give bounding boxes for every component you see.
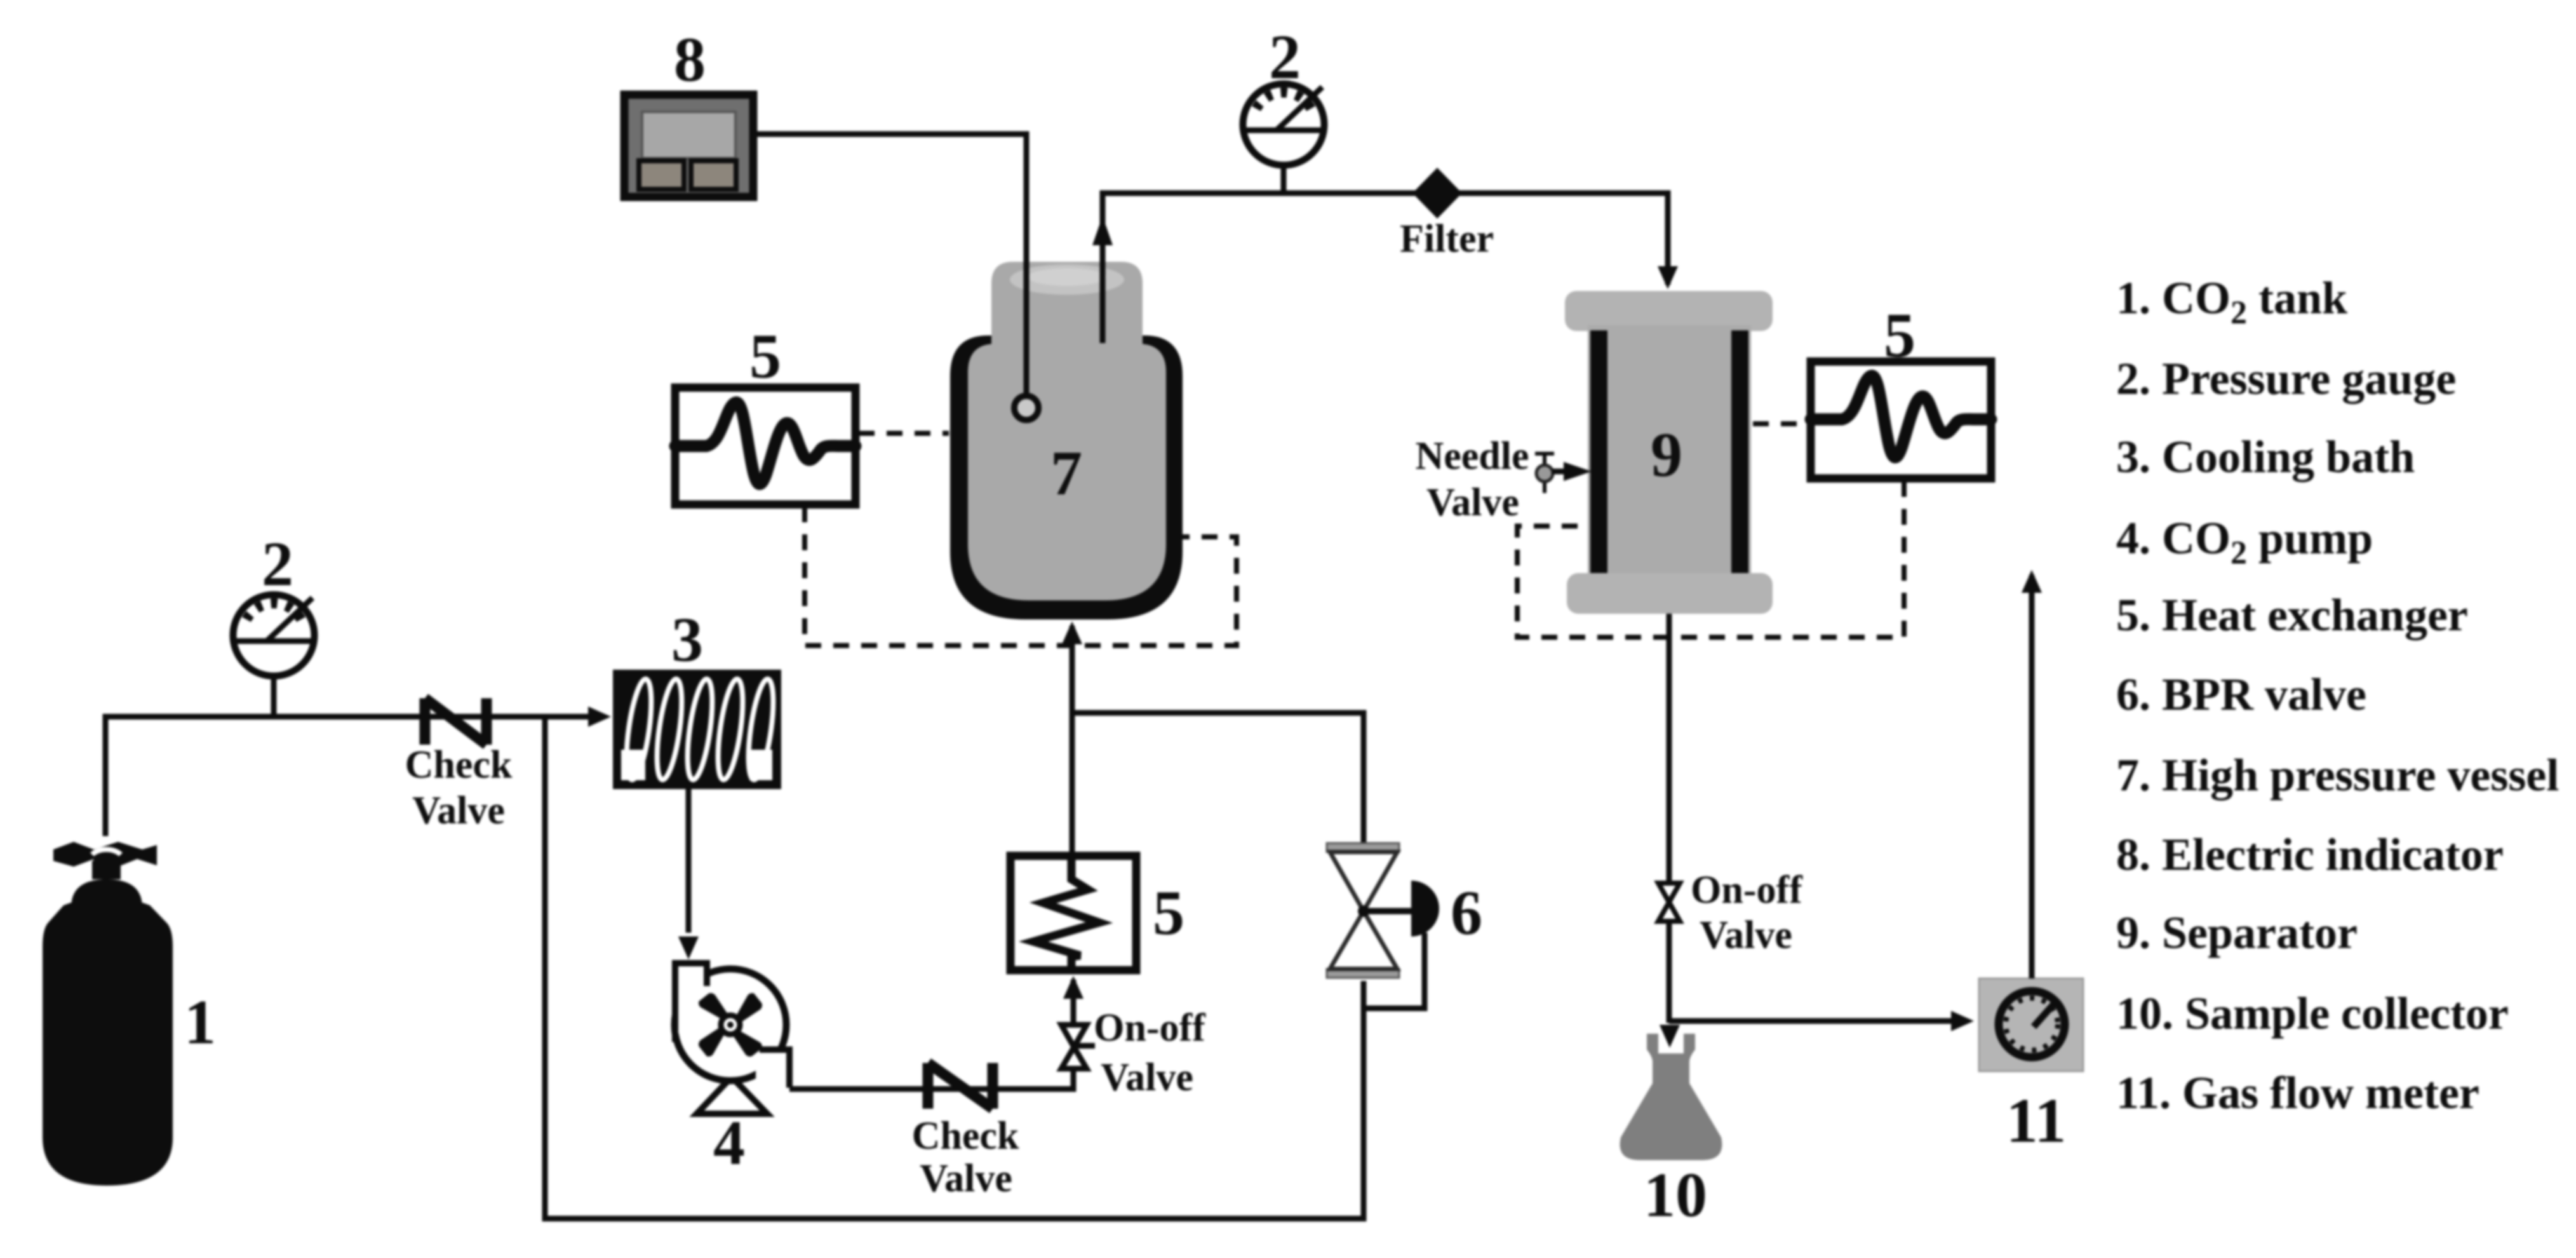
svg-text:3: 3: [671, 604, 703, 675]
svg-text:9. Separator: 9. Separator: [2116, 907, 2358, 958]
pipe separator bottom to flask junction: [1667, 614, 1672, 1023]
svg-text:5: 5: [1884, 300, 1915, 370]
needle valve label: [1415, 435, 1529, 524]
check valve label (left): [405, 743, 513, 832]
svg-text:2: 2: [1269, 22, 1301, 92]
svg-text:Needle: Needle: [1415, 435, 1529, 478]
svg-text:7: 7: [1050, 438, 1082, 508]
pipe junction to gas flow meter: [1669, 1011, 1974, 1031]
svg-text:8. Electric indicator: 8. Electric indicator: [2116, 829, 2504, 880]
electric indicator 8: [624, 95, 753, 197]
co2 pump 4: [674, 963, 789, 1114]
check valve label (bottom): [912, 1114, 1019, 1200]
needle valve symbol: [1535, 454, 1592, 493]
svg-text:10. Sample collector: 10. Sample collector: [2116, 988, 2509, 1039]
svg-text:4: 4: [713, 1107, 745, 1178]
label 2 (top gauge): [1269, 22, 1301, 92]
svg-text:On-off: On-off: [1094, 1006, 1206, 1050]
svg-text:7. High pressure vessel: 7. High pressure vessel: [2116, 750, 2559, 801]
pipe vessel 7 to separator 9 (with up arrow): [1092, 193, 1678, 330]
check valve (left, on feed pipe): [425, 698, 486, 745]
on-off valve (middle): [1061, 1025, 1095, 1069]
svg-text:5. Heat exchanger: 5. Heat exchanger: [2116, 590, 2468, 640]
label 1: [184, 987, 216, 1057]
svg-text:5: 5: [749, 321, 781, 391]
svg-text:11. Gas flow meter: 11. Gas flow meter: [2116, 1067, 2479, 1118]
dashed loop right HX bottom around separator: [1517, 481, 1904, 637]
label 2 (left gauge): [262, 529, 293, 599]
svg-text:Valve: Valve: [1700, 914, 1792, 957]
check valve (bottom, on pump outlet pipe): [928, 1063, 993, 1109]
co2 tank 1: [43, 842, 173, 1186]
svg-text:Valve: Valve: [920, 1157, 1012, 1200]
heat exchanger 5 (right of separator): [1811, 362, 1991, 478]
svg-text:On-off: On-off: [1691, 869, 1803, 912]
pipe pump to on-off valve: [789, 1071, 1073, 1089]
label 7: [1050, 438, 1082, 508]
label 3: [671, 604, 703, 675]
pressure gauge 2 (left) stem: [271, 675, 277, 717]
pipe heat exchanger to vessel 7 bottom, with branch to BPR: [1062, 621, 1364, 856]
svg-text:9: 9: [1651, 419, 1682, 490]
label 8: [674, 24, 706, 95]
separator 9: [1565, 291, 1773, 614]
label 11: [2006, 1085, 2066, 1156]
on-off valve (below separator): [1658, 883, 1680, 921]
svg-text:5: 5: [1153, 877, 1184, 948]
heat exchanger 5 (left of vessel): [675, 388, 855, 504]
pressure gauge 2 (left): [233, 595, 314, 676]
label 5 (middle HX): [1153, 877, 1184, 948]
dashed link left HX to vessel 7: [859, 431, 949, 436]
dashed link separator to right HX: [1753, 421, 1809, 426]
svg-text:3. Cooling bath: 3. Cooling bath: [2116, 431, 2415, 482]
svg-text:Valve: Valve: [1426, 481, 1519, 524]
svg-text:Filter: Filter: [1400, 217, 1494, 260]
svg-text:Check: Check: [912, 1114, 1019, 1158]
heat exchanger 5 (middle): [1010, 856, 1136, 970]
wire electric indicator to vessel (thermocouple): [757, 134, 1026, 395]
svg-text:1: 1: [184, 987, 216, 1057]
pressure gauge 2 (top) stem: [1281, 164, 1287, 193]
label 4: [713, 1107, 745, 1178]
filter label: [1400, 217, 1494, 260]
svg-text:Valve: Valve: [1101, 1056, 1193, 1099]
label 6: [1451, 877, 1482, 948]
svg-text:8: 8: [674, 24, 706, 95]
pipe on-off valve to heat exchanger 5 (middle): [1063, 976, 1083, 1024]
label 10: [1644, 1160, 1707, 1230]
label 5 (left HX): [749, 321, 781, 391]
gas flow meter 11: [1979, 978, 2083, 1071]
svg-text:6: 6: [1451, 877, 1482, 948]
label 5 (right HX): [1884, 300, 1915, 370]
pipe junction to flask (down arrow): [1660, 1025, 1680, 1048]
svg-text:2: 2: [262, 529, 293, 599]
svg-text:10: 10: [1644, 1160, 1707, 1230]
BPR valve 6: [1327, 843, 1439, 1008]
pressure gauge 2 (top): [1243, 84, 1324, 165]
sample collector flask 10: [1620, 1034, 1722, 1160]
dashed loop left HX bottom around vessel 7: [805, 506, 1237, 646]
bypass return line (junction to bottom rail to BPR): [545, 717, 1364, 1219]
cooling bath 3: [613, 670, 781, 789]
svg-text:2. Pressure gauge: 2. Pressure gauge: [2116, 353, 2456, 404]
svg-text:6. BPR valve: 6. BPR valve: [2116, 669, 2366, 720]
on-off valve label (right): [1691, 869, 1803, 957]
wire cooling bath to pump: [678, 789, 699, 959]
vent line from gas flow meter (up arrow): [2022, 570, 2042, 978]
label 9: [1651, 419, 1682, 490]
svg-text:11: 11: [2006, 1085, 2066, 1156]
svg-text:Valve: Valve: [412, 789, 505, 832]
svg-text:Check: Check: [405, 743, 513, 787]
legend: [2116, 273, 2559, 1118]
high pressure vessel 7: [950, 257, 1183, 619]
filter (diamond): [1412, 168, 1462, 219]
on-off valve label (middle): [1094, 1006, 1206, 1099]
wire tank to main feed pipe: [105, 707, 611, 836]
